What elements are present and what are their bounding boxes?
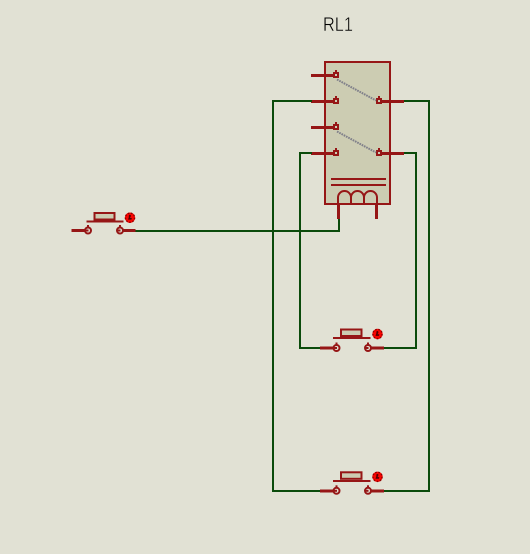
wire: bottom left horizontal to button 3 (272, 490, 321, 492)
relay RL1 pin 1 (left top) (311, 70, 339, 78)
wire: right outer vertical (428, 100, 430, 492)
wire: right inner vertical (415, 152, 417, 349)
relay RL1 contact arm 2 (337, 132, 376, 153)
relay RL1 contact arm 1 (337, 80, 376, 101)
wire: coil left pin down to node (338, 219, 340, 230)
relay RL1 pin 2 (left, NO contact row) (311, 96, 339, 104)
push button 1 (72, 212, 136, 234)
relay RL1 pin 3 (left) (311, 122, 339, 130)
relay RL1 pin 4 (left bottom) (311, 148, 339, 156)
relay RL1 pin 5 (right common 1) (376, 96, 404, 104)
wire: pin6-right horizontal (404, 152, 417, 154)
wire: pin5-right horizontal (404, 100, 430, 102)
wire: pin4-left horizontal (299, 152, 312, 154)
wire: left inner vertical (299, 152, 301, 349)
relay RL1 coil pin right (375, 204, 378, 219)
push button 2 (320, 329, 384, 352)
relay RL1 body (324, 61, 391, 205)
push button 3 (320, 471, 384, 494)
relay RL1 coil pin left (337, 204, 340, 219)
wire: long horizontal from button 1 to coil (136, 230, 341, 232)
relay RL1 coil bars (331, 178, 386, 186)
wire: button 3 right horizontal (382, 490, 430, 492)
relay RL1 coil winding (338, 191, 377, 204)
wire: horizontal to button 2 left (299, 347, 321, 349)
wire: button 2 right horizontal (384, 347, 417, 349)
wire: pin2-left horizontal (272, 100, 312, 102)
relay RL1 pin 6 (right common 2) (376, 148, 404, 156)
wire: left outer vertical (272, 100, 274, 492)
svg-text:RL1: RL1 (323, 14, 353, 36)
